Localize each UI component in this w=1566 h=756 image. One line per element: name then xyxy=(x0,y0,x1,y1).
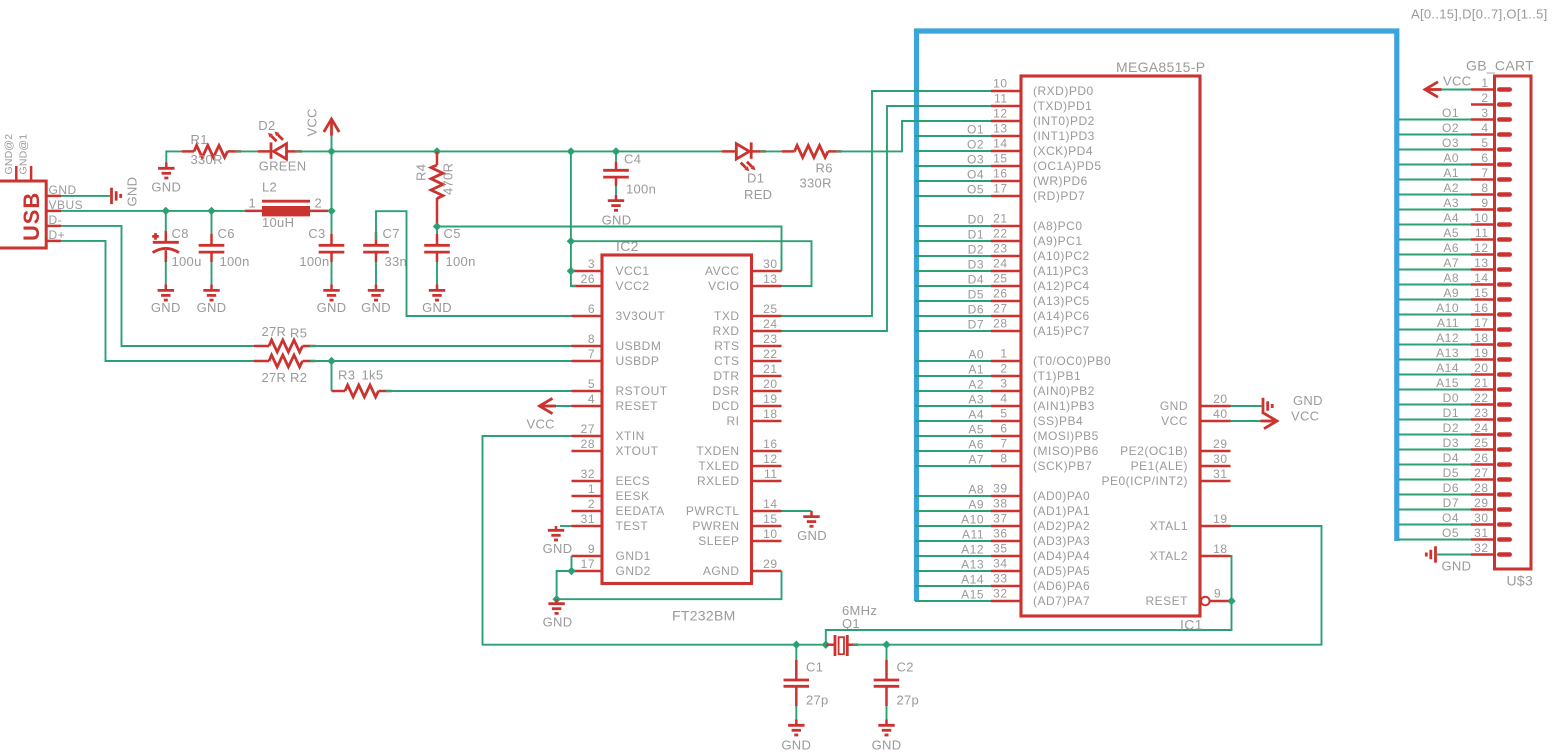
wire net O3 from bus to IC1 xyxy=(915,153,991,167)
svg-text:EECS: EECS xyxy=(616,474,651,488)
GB_CART pin 13 A7 xyxy=(1471,256,1510,270)
capacitor C5 100n xyxy=(424,226,475,269)
svg-text:A11: A11 xyxy=(1437,316,1459,330)
GB_CART pin 26 D4 xyxy=(1471,451,1510,465)
svg-text:13: 13 xyxy=(1474,256,1488,270)
svg-text:A15: A15 xyxy=(961,588,984,602)
USB pin GND@2 stub xyxy=(3,134,16,181)
svg-text:16: 16 xyxy=(993,167,1007,181)
svg-text:(A15)PC7: (A15)PC7 xyxy=(1033,324,1090,338)
svg-text:EESK: EESK xyxy=(616,489,650,503)
svg-text:R6: R6 xyxy=(816,161,833,176)
wire IC2 XTIN to crystal xyxy=(483,436,829,645)
svg-text:22: 22 xyxy=(993,227,1007,241)
svg-text:DCD: DCD xyxy=(712,399,740,413)
svg-text:17: 17 xyxy=(1474,316,1488,330)
svg-text:VCC: VCC xyxy=(1161,414,1188,428)
svg-text:GND@2: GND@2 xyxy=(3,134,15,175)
power VCC arrow at GB_CART xyxy=(1425,74,1471,98)
svg-text:40: 40 xyxy=(1213,407,1227,421)
svg-text:A1: A1 xyxy=(1443,166,1459,180)
svg-text:C4: C4 xyxy=(624,152,641,167)
wire crystal left to XTAL2 xyxy=(826,556,1232,645)
svg-text:5: 5 xyxy=(1481,136,1488,150)
svg-text:9: 9 xyxy=(588,542,595,556)
svg-text:O2: O2 xyxy=(967,138,984,152)
svg-text:C2: C2 xyxy=(897,660,914,675)
svg-text:A5: A5 xyxy=(1443,226,1459,240)
GB_CART pin 29 D7 xyxy=(1471,496,1510,510)
capacitor C1 27p xyxy=(784,645,829,708)
svg-text:GND: GND xyxy=(361,300,391,315)
svg-text:(AD5)PA5: (AD5)PA5 xyxy=(1033,564,1090,578)
IC1 pin 28 (A15)PC7 xyxy=(991,317,1090,339)
IC2 pin 15 PWREN xyxy=(692,512,781,533)
svg-text:C6: C6 xyxy=(218,226,235,241)
wire VCC arrow to rail xyxy=(331,135,333,211)
svg-text:10: 10 xyxy=(763,527,777,541)
IC2 pin 8 USBDM xyxy=(572,332,662,353)
svg-text:XTOUT: XTOUT xyxy=(616,444,659,458)
svg-text:O5: O5 xyxy=(967,183,984,197)
IC1 pin 15 (OC1A)PD5 xyxy=(991,152,1102,174)
svg-text:O3: O3 xyxy=(967,153,984,167)
svg-text:A14: A14 xyxy=(961,573,984,587)
IC2 pin 11 RXLED xyxy=(697,467,782,488)
svg-text:7: 7 xyxy=(1481,166,1488,180)
svg-text:28: 28 xyxy=(581,437,595,451)
svg-text:GND: GND xyxy=(872,738,902,753)
wire net A3 from bus to GB_CART xyxy=(1399,196,1471,210)
svg-text:A9: A9 xyxy=(1443,286,1459,300)
wire C7 to 3V3OUT xyxy=(376,211,572,316)
IC2 pin 21 DTR xyxy=(713,362,781,383)
svg-text:32: 32 xyxy=(1474,541,1488,555)
svg-text:C7: C7 xyxy=(383,226,400,241)
svg-text:EEDATA: EEDATA xyxy=(616,504,665,518)
power VCC arrow at RESET xyxy=(527,398,557,431)
IC1 pin 17 (RD)PD7 xyxy=(991,182,1085,204)
junction USBDP at R3 xyxy=(327,357,335,365)
svg-text:21: 21 xyxy=(763,362,777,376)
IC1 pin 13 (INT1)PD3 xyxy=(991,122,1095,144)
IC2 pin 4 RESET xyxy=(572,392,659,413)
wire USB D- to R5 xyxy=(61,226,258,346)
LED D1 RED xyxy=(722,142,772,202)
svg-text:A14: A14 xyxy=(1436,361,1459,375)
IC1 pin 19 XTAL1 xyxy=(1150,512,1231,533)
GB_CART pin 11 A5 xyxy=(1471,226,1510,240)
svg-text:25: 25 xyxy=(1474,436,1488,450)
wire C3 to ground xyxy=(331,262,333,285)
svg-text:A5: A5 xyxy=(968,423,984,437)
op-amp U-IC1 MEGA8515-P body xyxy=(1021,59,1205,633)
svg-text:A[0..15],D[0..7],O[1..5]: A[0..15],D[0..7],O[1..5] xyxy=(1411,7,1548,22)
IC2 pin 28 XTOUT xyxy=(572,437,659,458)
svg-text:VCC: VCC xyxy=(305,108,320,136)
svg-text:14: 14 xyxy=(763,497,777,511)
wire net A1 from bus to GB_CART xyxy=(1399,166,1471,180)
resistor R4 470R xyxy=(414,151,456,226)
IC2 pin 18 RI xyxy=(727,407,782,428)
junction IC2 VCC1 xyxy=(567,267,575,275)
wire USB GND to ground flag xyxy=(61,195,110,197)
USB pin GND xyxy=(46,183,76,197)
wire VCC arrow to IC2 RESET xyxy=(553,405,572,407)
svg-text:VCC: VCC xyxy=(527,417,555,432)
GB_CART pin 21 A15 xyxy=(1471,376,1510,390)
svg-text:28: 28 xyxy=(1474,481,1488,495)
svg-text:(A12)PC4: (A12)PC4 xyxy=(1033,279,1090,293)
svg-text:PE1(ALE): PE1(ALE) xyxy=(1131,459,1188,473)
svg-text:D+: D+ xyxy=(49,228,66,242)
wire net O3 from bus to GB_CART xyxy=(1399,136,1471,150)
svg-text:A4: A4 xyxy=(1443,211,1459,225)
IC1 pin 32 (AD7)PA7 xyxy=(991,587,1090,609)
capacitor C7 33n xyxy=(363,226,407,269)
wire net A2 from bus to IC1 xyxy=(915,378,991,392)
svg-text:C5: C5 xyxy=(444,226,461,241)
GB_CART pin 15 A9 xyxy=(1471,286,1510,300)
svg-text:13: 13 xyxy=(993,122,1007,136)
svg-text:1k5: 1k5 xyxy=(362,368,384,383)
wire net A6 from bus to GB_CART xyxy=(1399,241,1471,255)
svg-text:(INT1)PD3: (INT1)PD3 xyxy=(1033,129,1095,143)
junction VCC rail at arrow xyxy=(327,147,335,155)
svg-text:USBDM: USBDM xyxy=(616,339,662,353)
ground below C8 xyxy=(151,285,181,316)
svg-text:8: 8 xyxy=(1000,452,1007,466)
wire IC2 GND1/GND2 to ground xyxy=(571,556,573,571)
junction crystal right / C2 xyxy=(882,641,890,649)
svg-text:23: 23 xyxy=(1474,406,1488,420)
svg-text:A2: A2 xyxy=(1443,181,1459,195)
svg-text:R2: R2 xyxy=(290,370,307,385)
svg-text:SLEEP: SLEEP xyxy=(698,534,739,548)
wire net O2 from bus to IC1 xyxy=(915,138,991,152)
svg-text:O4: O4 xyxy=(1442,511,1459,525)
wire crystal right to XTAL1 xyxy=(853,526,1322,645)
ground below C1 xyxy=(781,720,811,753)
GB_CART pin 28 D6 xyxy=(1471,481,1510,495)
svg-text:D6: D6 xyxy=(968,303,984,317)
svg-text:7: 7 xyxy=(588,347,595,361)
wire net O4 from bus to GB_CART xyxy=(1399,511,1471,525)
svg-text:R4: R4 xyxy=(414,164,429,181)
wire net O5 from bus to IC1 xyxy=(915,183,991,197)
wire net A10 from bus to GB_CART xyxy=(1399,301,1471,315)
IC1 pin 29 PE2(OC1B) xyxy=(1120,437,1230,458)
svg-text:PWRCTL: PWRCTL xyxy=(686,504,740,518)
svg-text:12: 12 xyxy=(763,452,777,466)
svg-text:(T0/OC0)PB0: (T0/OC0)PB0 xyxy=(1033,354,1111,368)
capacitor C8 100u polarized xyxy=(152,211,201,269)
svg-text:12: 12 xyxy=(993,107,1007,121)
GB_CART pin 12 A6 xyxy=(1471,241,1510,255)
wire net A0 from bus to IC1 xyxy=(915,348,991,362)
junction IC2 VCIO tap xyxy=(567,237,575,245)
IC1 pin 36 (AD3)PA3 xyxy=(991,527,1090,549)
wire net D4 from bus to GB_CART xyxy=(1399,451,1471,465)
svg-text:(INT0)PD2: (INT0)PD2 xyxy=(1033,114,1095,128)
svg-text:C1: C1 xyxy=(806,660,823,675)
IC2 pin 3 VCC1 xyxy=(572,257,650,278)
USB pin VBUS xyxy=(46,198,83,212)
wire net A11 from bus to IC1 xyxy=(915,528,991,542)
wire R6 to IC1 pin 12 xyxy=(836,121,991,151)
IC1 pin 38 (AD1)PA1 xyxy=(991,497,1090,519)
wire R2 to IC2 USBDP xyxy=(310,360,572,362)
svg-text:GND2: GND2 xyxy=(616,564,651,578)
svg-text:VCC2: VCC2 xyxy=(616,279,650,293)
wire IC2 AGND to ground xyxy=(557,571,782,599)
capacitor C3 100n xyxy=(299,211,344,269)
svg-text:29: 29 xyxy=(1474,496,1488,510)
svg-text:RESET: RESET xyxy=(616,399,659,413)
svg-text:TXD: TXD xyxy=(714,309,740,323)
svg-text:GND: GND xyxy=(543,541,573,556)
svg-text:AVCC: AVCC xyxy=(705,264,739,278)
IC1 pin 34 (AD5)PA5 xyxy=(991,557,1090,579)
connector USB xyxy=(0,181,46,248)
svg-text:MEGA8515-P: MEGA8515-P xyxy=(1116,59,1205,75)
svg-text:17: 17 xyxy=(993,182,1007,196)
wire net A4 from bus to GB_CART xyxy=(1399,211,1471,225)
IC1 pin 7 (MISO)PB6 xyxy=(991,437,1099,459)
wire AVCC net to IC2 pin 30 xyxy=(437,227,782,272)
svg-text:100n: 100n xyxy=(626,182,656,197)
svg-text:3: 3 xyxy=(1000,377,1007,391)
wire GND2 junction to ground symbol xyxy=(557,571,572,599)
bus A[0..15],D[0..7],O[1..5] xyxy=(917,31,1397,601)
svg-text:D5: D5 xyxy=(968,288,984,302)
wire net D6 from bus to IC1 xyxy=(915,303,991,317)
svg-text:31: 31 xyxy=(1213,467,1227,481)
IC1 pin 1 (T0/OC0)PB0 xyxy=(991,347,1111,369)
svg-text:D3: D3 xyxy=(1443,436,1459,450)
svg-text:9: 9 xyxy=(1481,196,1488,210)
IC2 pin 14 PWRCTL xyxy=(686,497,782,518)
IC1 pin 25 (A12)PC4 xyxy=(991,272,1090,294)
wire C5 to ground xyxy=(436,262,438,285)
svg-text:PWREN: PWREN xyxy=(692,519,739,533)
IC1 pin 37 (AD2)PA2 xyxy=(991,512,1090,534)
svg-text:26: 26 xyxy=(1474,451,1488,465)
svg-text:DSR: DSR xyxy=(713,384,740,398)
junction VCC rail at R4 xyxy=(433,147,441,155)
resistor R3 1k5 xyxy=(332,368,392,398)
svg-text:100u: 100u xyxy=(172,254,202,269)
wire C6 to ground xyxy=(211,262,213,285)
svg-text:O1: O1 xyxy=(967,123,984,137)
bus label A[0..15],D[0..7],O[1..5] xyxy=(1411,7,1548,22)
svg-text:2: 2 xyxy=(1481,91,1488,105)
svg-text:A10: A10 xyxy=(961,513,984,527)
wire net A4 from bus to IC1 xyxy=(915,408,991,422)
svg-text:18: 18 xyxy=(1213,542,1227,556)
svg-text:GND: GND xyxy=(125,177,140,207)
svg-text:38: 38 xyxy=(993,497,1007,511)
svg-text:1: 1 xyxy=(1000,347,1007,361)
svg-text:15: 15 xyxy=(993,152,1007,166)
svg-text:XTAL1: XTAL1 xyxy=(1150,519,1188,533)
svg-text:(A11)PC3: (A11)PC3 xyxy=(1033,264,1089,278)
svg-text:31: 31 xyxy=(581,512,595,526)
svg-text:(A9)PC1: (A9)PC1 xyxy=(1033,234,1083,248)
IC1 pin 27 (A14)PC6 xyxy=(991,302,1090,324)
IC2 pin 17 GND2 xyxy=(572,557,651,578)
junction VBUS at C6 xyxy=(207,207,215,215)
IC2 pin 23 RTS xyxy=(714,332,781,353)
IC1 pin 8 (SCK)PB7 xyxy=(991,452,1092,474)
IC2 pin 32 EECS xyxy=(572,467,651,488)
svg-text:D2: D2 xyxy=(258,118,275,133)
svg-text:(MOSI)PB5: (MOSI)PB5 xyxy=(1033,429,1099,443)
connector U$3 GB_CART body xyxy=(1466,58,1534,589)
GB_CART pin 32 GND xyxy=(1471,541,1510,555)
IC1 pin 23 (A10)PC2 xyxy=(991,242,1090,264)
svg-text:2: 2 xyxy=(1000,362,1007,376)
svg-text:20: 20 xyxy=(1474,361,1488,375)
svg-text:D-: D- xyxy=(49,213,63,227)
GB_CART pin 9 A3 xyxy=(1471,196,1510,210)
IC2 pin 31 TEST xyxy=(572,512,649,533)
svg-text:TXDEN: TXDEN xyxy=(696,444,739,458)
svg-text:TEST: TEST xyxy=(616,519,649,533)
svg-text:25: 25 xyxy=(763,302,777,316)
svg-text:24: 24 xyxy=(1474,421,1488,435)
GB_CART pin 6 A0 xyxy=(1471,151,1510,165)
IC2 pin 10 SLEEP xyxy=(698,527,781,548)
junction IC1 RESET on XTAL2 riser xyxy=(1227,597,1235,605)
svg-text:2: 2 xyxy=(588,497,595,511)
wire net O4 from bus to IC1 xyxy=(915,168,991,182)
IC2 pin 22 CTS xyxy=(714,347,782,368)
IC1 pin 20 GND xyxy=(1160,392,1231,413)
svg-text:IC1: IC1 xyxy=(1180,617,1203,633)
ground below C6 xyxy=(197,285,227,316)
wire net A9 from bus to GB_CART xyxy=(1399,286,1471,300)
svg-text:D6: D6 xyxy=(1443,481,1459,495)
svg-text:O2: O2 xyxy=(1442,121,1459,135)
svg-text:A2: A2 xyxy=(968,378,984,392)
wire net A13 from bus to IC1 xyxy=(915,558,991,572)
svg-text:D1: D1 xyxy=(1443,406,1459,420)
svg-text:2: 2 xyxy=(315,196,323,211)
svg-text:RESET: RESET xyxy=(1145,594,1188,608)
svg-text:19: 19 xyxy=(1213,512,1227,526)
wire net A5 from bus to GB_CART xyxy=(1399,226,1471,240)
wire net A15 from bus to IC1 xyxy=(915,588,991,602)
svg-text:14: 14 xyxy=(993,137,1007,151)
IC1 pin 30 PE1(ALE) xyxy=(1131,452,1231,473)
power VCC arrow xyxy=(305,108,340,136)
svg-text:30: 30 xyxy=(1213,452,1227,466)
wire net O5 from bus to GB_CART xyxy=(1399,526,1471,540)
svg-text:12: 12 xyxy=(1474,241,1488,255)
svg-text:GND1: GND1 xyxy=(616,549,651,563)
ground flag at GB_CART xyxy=(1426,546,1471,573)
wire net D7 from bus to IC1 xyxy=(915,318,991,332)
svg-text:RSTOUT: RSTOUT xyxy=(616,384,668,398)
junction IC2 AGND return xyxy=(552,595,560,603)
svg-text:1: 1 xyxy=(248,196,256,211)
svg-text:15: 15 xyxy=(763,512,777,526)
wire net D5 from bus to IC1 xyxy=(915,288,991,302)
svg-text:RXLED: RXLED xyxy=(697,474,740,488)
USB pin D- xyxy=(46,213,62,227)
svg-text:(SS)PB4: (SS)PB4 xyxy=(1033,414,1083,428)
svg-text:3: 3 xyxy=(1481,106,1488,120)
ground below C2 xyxy=(872,720,902,753)
svg-text:330R: 330R xyxy=(191,152,223,167)
svg-text:D1: D1 xyxy=(968,228,984,242)
svg-text:33: 33 xyxy=(993,572,1007,586)
wire net A14 from bus to GB_CART xyxy=(1399,361,1471,375)
wire IC1 pin 40 to VCC arrow xyxy=(1231,420,1262,422)
IC2 pin 9 GND1 xyxy=(572,542,651,563)
wire net A13 from bus to GB_CART xyxy=(1399,346,1471,360)
svg-text:O3: O3 xyxy=(1442,136,1459,150)
svg-text:10: 10 xyxy=(1474,211,1488,225)
svg-text:VCIO: VCIO xyxy=(708,279,739,293)
USB pin D+ xyxy=(46,228,65,242)
svg-text:A3: A3 xyxy=(968,393,984,407)
svg-text:D2: D2 xyxy=(1443,421,1459,435)
junction IC2 GND2 xyxy=(567,567,575,575)
svg-text:21: 21 xyxy=(1474,376,1488,390)
svg-text:24: 24 xyxy=(763,317,777,331)
IC1 pin 12 (INT0)PD2 xyxy=(991,107,1095,129)
svg-text:29: 29 xyxy=(763,557,777,571)
IC2 pin 27 XTIN xyxy=(572,422,645,443)
GB_CART pin 25 D3 xyxy=(1471,436,1510,450)
IC2 pin 6 3V3OUT xyxy=(572,302,666,323)
svg-text:U$3: U$3 xyxy=(1507,573,1534,589)
IC2 pin 19 DCD xyxy=(712,392,782,413)
svg-text:23: 23 xyxy=(763,332,777,346)
IC1 pin 26 (A13)PC5 xyxy=(991,287,1090,309)
GB_CART pin 24 D2 xyxy=(1471,421,1510,435)
svg-text:D4: D4 xyxy=(968,273,984,287)
wire net D0 from bus to IC1 xyxy=(915,213,991,227)
IC2 pin 1 EESK xyxy=(572,482,650,503)
GB_CART pin 4 O2 xyxy=(1471,121,1510,135)
wire net A5 from bus to IC1 xyxy=(915,423,991,437)
wire IC2 RXD to IC1 PD1 xyxy=(782,106,992,331)
IC1 pin 11 (TXD)PD1 xyxy=(991,92,1092,114)
svg-text:GND: GND xyxy=(797,528,827,543)
svg-text:20: 20 xyxy=(763,377,777,391)
svg-text:(XCK)PD4: (XCK)PD4 xyxy=(1033,144,1093,158)
IC1 pin 3 (AIN0)PB2 xyxy=(991,377,1095,399)
wire D1 to R6 xyxy=(760,150,786,152)
svg-text:26: 26 xyxy=(581,272,595,286)
wire net D2 from bus to IC1 xyxy=(915,243,991,257)
power VCC arrow at IC1 xyxy=(1261,409,1320,429)
svg-text:30: 30 xyxy=(763,257,777,271)
IC1 pin 6 (MOSI)PB5 xyxy=(991,422,1099,444)
wire C4 to ground xyxy=(615,186,617,195)
GB_CART pin 7 A1 xyxy=(1471,166,1510,180)
svg-text:CTS: CTS xyxy=(714,354,740,368)
svg-text:A7: A7 xyxy=(1443,256,1459,270)
ground below C5 xyxy=(422,285,452,316)
resistor R6 330R xyxy=(782,145,842,190)
svg-text:16: 16 xyxy=(1474,301,1488,315)
GB_CART pin 8 A2 xyxy=(1471,181,1510,195)
wire net D4 from bus to IC1 xyxy=(915,273,991,287)
